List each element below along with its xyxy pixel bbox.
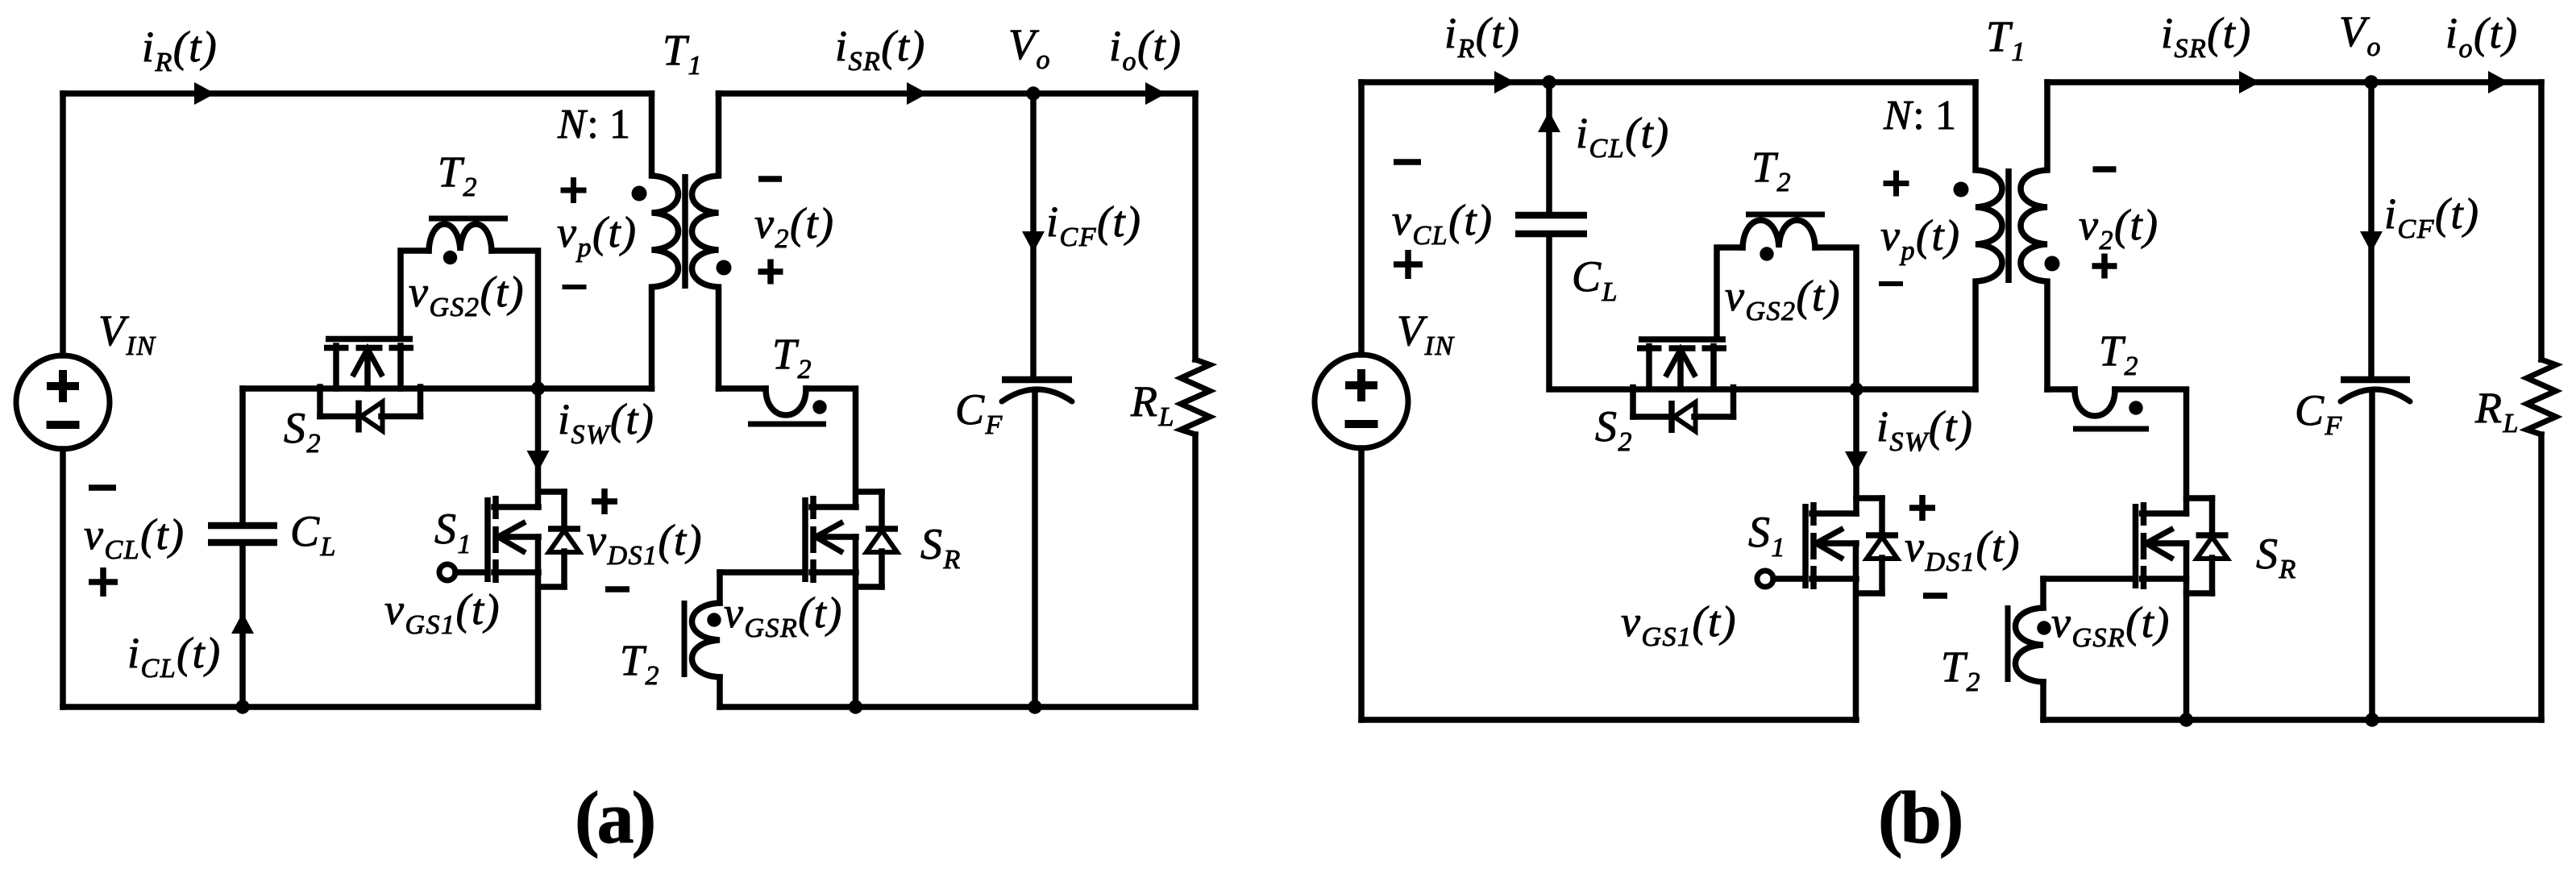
label plus v_p (a): [561, 177, 587, 203]
transistor S_R (a) body diode: [856, 492, 898, 587]
transformer T1 (b) primary winding: [1976, 82, 2002, 389]
label v_DS1(t) (a): [587, 516, 703, 571]
transistor S1 (a) gate bar: [484, 497, 491, 582]
T2 v_GSR core bar (a): [682, 601, 688, 677]
T2 winding v_GSR (b): [2016, 608, 2044, 682]
label T2 pickup (b): [2099, 326, 2139, 381]
label N:1 (b): [1883, 93, 1958, 139]
caption (a): [575, 776, 654, 858]
resistor R_L zigzag (b): [2527, 360, 2556, 434]
label i_CL(t) (b): [1576, 109, 1670, 164]
T2 pickup core bar (a): [748, 422, 826, 427]
transistor S2 (a) gate bar: [326, 336, 413, 343]
label S1 (b): [1748, 508, 1786, 563]
svg-text:vp(t): vp(t): [557, 208, 637, 263]
transistor S1 (b) source lead: [1812, 576, 1856, 582]
label i_CL(t) (a): [127, 629, 222, 684]
arrow i_CL up (a): [231, 613, 254, 634]
arrow i_R (b): [1494, 71, 1515, 94]
T2 v_GSR dot (a): [707, 613, 721, 626]
label i_R(t) (a): [142, 23, 218, 77]
label S_R (b): [2256, 530, 2297, 584]
label T1 (a): [663, 26, 703, 81]
wire top right (a): [719, 90, 1196, 97]
junction dot C_L top (b): [1542, 75, 1556, 89]
V_IN plus (a): [47, 370, 79, 402]
T2 winding dot (a): [443, 251, 457, 264]
label minus v_p (a): [563, 285, 587, 289]
label plus v_2 (b): [2092, 254, 2117, 279]
svg-text:N: 1: N: 1: [1883, 93, 1958, 139]
arrow i_CL up (b): [1538, 111, 1560, 132]
transformer T1 (a) secondary dot: [717, 260, 732, 276]
wire bottom primary side (b): [1361, 717, 1856, 723]
transformer T1 (b) secondary winding: [2021, 82, 2047, 389]
label S1 (a): [434, 505, 472, 559]
capacitor C_L (b): [1515, 215, 1587, 234]
label i_o(t) (b): [2445, 9, 2518, 64]
transformer T1 (b) secondary dot: [2045, 256, 2060, 272]
transistor S_R (b) source lead: [2142, 576, 2187, 582]
transistor S1 (b) gate bar: [1802, 504, 1809, 588]
label i_SW(t) (b): [1876, 402, 1973, 457]
junction dot C_F ground (b): [2365, 713, 2379, 726]
arrow i_o (a): [1145, 82, 1166, 105]
T2 pickup dot (b): [2129, 401, 2142, 414]
junction dot S_R ground (a): [849, 700, 862, 713]
wire S_R source to ground (b): [2183, 543, 2190, 720]
svg-text:(a): (a): [575, 776, 654, 858]
junction dot C_F ground (a): [1028, 700, 1041, 713]
arrow i_o (b): [2488, 71, 2509, 94]
wire v_GS2 loop left (a): [401, 251, 429, 336]
transistor S_R (b) gate lead wire: [2043, 576, 2133, 582]
transistor S_R (a) channel segments: [810, 496, 816, 583]
transistor S1 (a) gate terminal circle: [439, 564, 484, 580]
junction dot S_R ground (b): [2179, 713, 2193, 726]
arrow i_SW (a): [527, 451, 550, 472]
transistor S2 (b) body diode loop: [1633, 388, 1734, 434]
label S2 (b): [1595, 402, 1633, 457]
svg-text:vp(t): vp(t): [1880, 211, 1960, 266]
svg-text:(b): (b): [1878, 776, 1961, 858]
junction dot C_L bottom (a): [235, 700, 249, 713]
label T2 v_GSR (a): [620, 636, 660, 691]
transistor S2 (a) body arrow: [354, 349, 381, 389]
label i_SR(t) (a): [835, 22, 926, 77]
node V_o dot (a): [1026, 86, 1040, 100]
transformer T1 (a) primary winding: [652, 94, 679, 389]
label C_L (b): [1572, 252, 1618, 307]
label minus v_2 (a): [758, 176, 782, 182]
label minus v_2 (b): [2093, 166, 2117, 173]
label T1 (b): [1986, 12, 2026, 67]
V_IN minus (b): [1345, 420, 1378, 428]
label i_CF(t) (a): [1046, 197, 1141, 252]
transistor S2 (a) drain lead: [333, 346, 339, 389]
wire C_F bottom (a): [1032, 390, 1038, 707]
transformer T1 (b) primary dot: [1954, 182, 1969, 197]
T2 core bar over winding (b): [1746, 212, 1825, 218]
wire C_F bottom (b): [2369, 390, 2375, 720]
transistor S_R (a) gate lead wire: [720, 569, 802, 576]
label plus v_CL (a): [89, 567, 118, 597]
label minus v_DS1 (b): [1923, 592, 1947, 599]
svg-text:iR(t): iR(t): [142, 23, 218, 77]
resistor R_L zigzag (a): [1181, 360, 1210, 434]
label i_SW(t) (a): [558, 395, 654, 450]
transistor S1 (b) body arrow: [1816, 530, 1856, 558]
label C_L (a): [290, 507, 337, 562]
svg-text:v2(t): v2(t): [2079, 201, 2158, 256]
transistor S2 (b) gate bar: [1639, 336, 1726, 343]
transistor S1 (b) body diode: [1856, 498, 1898, 593]
transistor S_R (a) drain lead: [812, 504, 856, 510]
wire below source (b): [1358, 448, 1365, 720]
label plus v_DS1 (b): [1909, 495, 1935, 521]
wire C_L branch lower (b): [1549, 237, 1856, 389]
capacitor C_F (a): [1002, 380, 1072, 401]
T2 winding gate-drive S2 (b): [1743, 220, 1815, 247]
T2 v_GSR dot (b): [2037, 621, 2050, 634]
label T2 gate-drive (b): [1751, 143, 1792, 197]
transistor S2 (b) body arrow: [1667, 350, 1694, 389]
transistor S_R (b) gate bar: [2133, 504, 2139, 588]
transistor S1 (a) body diode: [538, 492, 580, 587]
label plus v_2 (a): [758, 260, 783, 285]
wire C_L branch lower (a): [239, 546, 246, 707]
wire R_L top (a): [1192, 94, 1199, 360]
wire R_L bottom (a): [1192, 434, 1199, 707]
transistor S1 (a) source lead: [494, 569, 538, 576]
junction node switch (a): [531, 381, 545, 395]
T2 pickup winding dip (a): [766, 389, 806, 415]
V_IN minus (a): [47, 421, 80, 429]
transistor S1 (a) body arrow: [498, 523, 538, 551]
wire top right (b): [2047, 79, 2541, 85]
label minus v_CL (b): [1394, 159, 1421, 165]
label T2 v_GSR (b): [1941, 642, 1981, 697]
transistor S2 (a) source lead: [397, 346, 404, 389]
wire R_L top (b): [2538, 82, 2545, 360]
transistor S1 (b) channel segments: [1810, 502, 1817, 589]
wire R_L bottom (b): [2538, 434, 2545, 720]
label v_GS1(t) (a): [384, 585, 501, 640]
wire S_R source to ground (a): [853, 537, 859, 707]
label S2 (a): [284, 404, 322, 459]
transistor S2 (a) channel segments: [324, 345, 413, 351]
wire S1 source to ground (b): [1853, 543, 1859, 720]
label V_o (b): [2339, 7, 2382, 62]
wire v_GSR to ground (a): [717, 677, 723, 707]
wire left side (a): [60, 94, 66, 355]
label v_2(t) (b): [2079, 201, 2158, 256]
label minus v_DS1 (a): [605, 586, 629, 592]
transistor S_R (a) gate bar: [802, 497, 808, 582]
wire v_GS2 loop right (b): [1815, 247, 1856, 389]
wire v_GS2 loop right (a): [492, 251, 538, 389]
label V_IN (b): [1397, 306, 1455, 361]
transistor S1 (b) drain lead: [1812, 510, 1856, 517]
T2 winding v_GSR (a): [692, 603, 721, 677]
label v_GS1(t) (b): [1621, 597, 1737, 652]
label i_o(t) (a): [1109, 22, 1182, 77]
wire below source (a): [60, 449, 66, 707]
transistor S_R (a) body arrow: [816, 523, 856, 551]
T2 pickup dot (a): [812, 400, 826, 414]
wire i_SW drain (a): [535, 389, 542, 507]
label S_R (a): [920, 520, 962, 575]
transistor S1 (a) drain lead: [494, 504, 538, 510]
transformer T1 (a) core bar: [682, 174, 688, 289]
wire T2 pickup to S_R drain (b): [2115, 389, 2187, 513]
label v_GSR(t) (b): [2051, 598, 2171, 653]
transistor S_R (b) body arrow: [2146, 530, 2187, 558]
label C_F (b): [2295, 386, 2343, 441]
wire T2 pickup to S_R drain (a): [806, 389, 856, 507]
label plus v_CL (b): [1394, 250, 1423, 279]
wire bottom secondary side (a): [720, 704, 1195, 710]
wire v_GSR loop down (a): [717, 572, 723, 603]
transistor S2 (b) drain lead: [1646, 347, 1652, 389]
wire i_SW drain (b): [1853, 389, 1859, 513]
label V_o (a): [1008, 20, 1051, 75]
wire junction to primary bottom (b): [1856, 386, 1976, 393]
wire bottom secondary side (b): [2043, 717, 2541, 723]
arrow i_CF (b): [2360, 231, 2383, 252]
label v_GSR(t) (a): [724, 588, 843, 643]
label R_L (b): [2474, 384, 2520, 439]
V_IN plus (b): [1345, 369, 1377, 401]
label v_CL(t) (b): [1392, 196, 1494, 251]
wire secondary to T2 pickup (a): [719, 385, 767, 392]
wire top-left from source to T1 primary (a): [63, 90, 652, 97]
label v_GS2(t) (a): [409, 268, 525, 322]
wire junction to primary bottom (a): [538, 385, 652, 392]
svg-text:v2(t): v2(t): [754, 199, 834, 254]
svg-text:iR(t): iR(t): [1444, 9, 1520, 64]
wire v_GSR loop down (b): [2040, 579, 2046, 608]
T2 pickup winding dip (b): [2075, 389, 2115, 416]
wire v_GSR to ground (b): [2040, 682, 2046, 720]
label minus v_CL (a): [89, 484, 116, 491]
transformer T1 (a) primary dot: [632, 186, 647, 202]
label v_CL(t) (a): [84, 510, 185, 565]
wire secondary to T2 pickup (b): [2047, 386, 2075, 393]
transistor S_R (b) body diode: [2187, 498, 2229, 593]
label minus v_p (b): [1879, 281, 1903, 286]
label v_2(t) (a): [754, 199, 834, 254]
transistor S_R (b) channel segments: [2141, 502, 2147, 589]
label i_SR(t) (b): [2161, 9, 2252, 64]
T2 pickup core bar (b): [2073, 426, 2149, 432]
junction node switch (b): [1849, 382, 1863, 396]
caption (b): [1878, 776, 1961, 858]
wire left side (b): [1358, 82, 1365, 355]
label R_L (a): [1130, 377, 1175, 432]
label i_R(t) (b): [1444, 9, 1520, 64]
source V_IN circle (b): [1315, 355, 1408, 448]
transformer T1 (b) core bar: [2005, 168, 2012, 283]
capacitor C_F (b): [2341, 380, 2410, 401]
svg-text:io(t): io(t): [1109, 22, 1182, 77]
transistor S2 (a) body diode loop: [320, 387, 421, 433]
source V_IN circle (a): [16, 355, 110, 449]
label plus v_DS1 (a): [592, 488, 617, 514]
transistor S_R (b) drain lead: [2142, 510, 2187, 517]
label T2 pickup (a): [772, 330, 812, 385]
capacitor C_L (a): [208, 526, 277, 543]
arrow i_SW (b): [1845, 451, 1868, 472]
transistor S1 (b) gate terminal circle: [1757, 571, 1802, 587]
wire C_L branch upper (a): [239, 389, 246, 523]
label v_GS2(t) (b): [1725, 272, 1841, 326]
wire top-left from source to T1 primary (b): [1361, 79, 1976, 85]
transistor S_R (a) source lead: [812, 569, 856, 576]
transformer T1 (a) secondary winding: [692, 94, 719, 389]
wire S2 row (a): [243, 385, 538, 392]
transistor S2 (b) channel segments: [1637, 345, 1726, 351]
arrow i_R (a): [194, 82, 215, 105]
transistor S2 (b) source lead: [1710, 347, 1717, 389]
svg-text:N: 1: N: 1: [557, 102, 632, 148]
T2 core bar over winding (a): [429, 216, 508, 222]
T2 winding gate-drive S2 (a): [429, 224, 492, 251]
wire C_F top (b): [2368, 82, 2374, 376]
label v_DS1(t) (b): [1905, 522, 2021, 577]
label T2 gate-drive (a): [438, 148, 478, 202]
label V_IN (a): [98, 306, 156, 361]
T2 winding dot (b): [1760, 247, 1773, 260]
T2 v_GSR core bar (b): [2005, 605, 2011, 682]
svg-text:io(t): io(t): [2445, 9, 2518, 64]
wire v_GS2 loop left (b): [1717, 247, 1743, 336]
arrow i_SR (b): [2239, 71, 2260, 94]
wire C_F top (a): [1030, 94, 1037, 376]
wire S1 source to ground (a): [535, 537, 542, 707]
label v_p(t) (b): [1880, 211, 1960, 266]
arrow i_SR (a): [907, 82, 928, 105]
arrow i_CF (a): [1022, 231, 1045, 252]
label i_CF(t) (b): [2384, 189, 2479, 244]
wire bottom primary side (a): [63, 704, 538, 710]
label plus v_p (b): [1884, 171, 1909, 197]
label C_F (a): [955, 385, 1003, 440]
label N:1 (a): [557, 102, 632, 148]
wire C_L branch upper (b): [1546, 82, 1552, 213]
transistor S1 (a) channel segments: [492, 496, 499, 583]
node V_o dot (b): [2364, 75, 2378, 89]
label v_p(t) (a): [557, 208, 637, 263]
